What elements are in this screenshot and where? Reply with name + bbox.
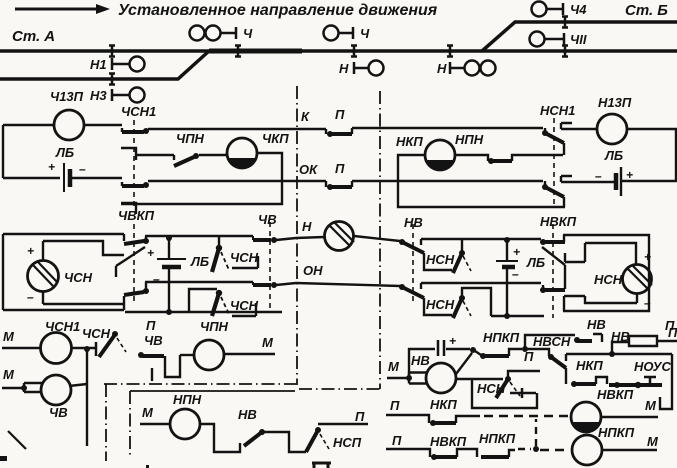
- svg-text:+: +: [644, 250, 651, 264]
- svg-text:ЧСН: ЧСН: [82, 326, 111, 341]
- svg-text:НВ: НВ: [411, 353, 430, 368]
- svg-text:НСН1: НСН1: [540, 103, 575, 118]
- svg-text:П: П: [392, 433, 402, 448]
- svg-text:+: +: [27, 244, 34, 258]
- svg-text:М: М: [388, 359, 400, 374]
- svg-text:НОУС: НОУС: [634, 359, 671, 374]
- svg-text:ЧСН: ЧСН: [230, 250, 259, 265]
- svg-text:+: +: [513, 245, 520, 259]
- svg-text:П: П: [335, 107, 345, 122]
- svg-text:Ч4: Ч4: [570, 2, 587, 17]
- svg-text:Ч: Ч: [360, 26, 370, 41]
- svg-text:М: М: [142, 405, 154, 420]
- svg-text:Ч13П: Ч13П: [50, 89, 84, 104]
- svg-text:Н: Н: [339, 61, 349, 76]
- svg-text:–: –: [512, 267, 519, 281]
- svg-text:ЛБ: ЛБ: [604, 148, 623, 163]
- svg-text:Ст. А: Ст. А: [12, 28, 55, 45]
- svg-text:ЛБ: ЛБ: [55, 145, 74, 160]
- svg-text:ЧСН1: ЧСН1: [45, 319, 80, 334]
- svg-text:М: М: [647, 434, 659, 449]
- svg-text:НКП: НКП: [396, 134, 423, 149]
- svg-text:+: +: [626, 168, 633, 182]
- svg-text:Н: Н: [302, 219, 312, 234]
- svg-text:+: +: [147, 246, 154, 260]
- svg-text:НВ: НВ: [238, 407, 257, 422]
- svg-text:–: –: [644, 296, 651, 310]
- svg-text:НСН: НСН: [426, 297, 455, 312]
- svg-text:НПКП: НПКП: [483, 330, 520, 345]
- svg-text:ЛБ: ЛБ: [190, 254, 209, 269]
- svg-text:ЧВ: ЧВ: [258, 212, 277, 227]
- svg-text:М: М: [3, 329, 15, 344]
- svg-text:НВ: НВ: [611, 329, 630, 344]
- svg-text:НПН: НПН: [455, 132, 484, 147]
- svg-text:НКП: НКП: [576, 358, 603, 373]
- svg-text:Ч: Ч: [243, 26, 253, 41]
- svg-text:НПКП: НПКП: [479, 431, 516, 446]
- svg-text:Н: Н: [437, 61, 447, 76]
- svg-text:П: П: [524, 349, 534, 364]
- svg-text:Н13П: Н13П: [598, 95, 632, 110]
- svg-text:П: П: [668, 325, 677, 340]
- svg-text:НСН: НСН: [426, 252, 455, 267]
- svg-text:ЧВКП: ЧВКП: [118, 208, 155, 223]
- svg-text:П: П: [355, 409, 365, 424]
- svg-text:НВКП: НВКП: [597, 387, 634, 402]
- svg-text:М: М: [3, 367, 15, 382]
- svg-text:М: М: [262, 335, 274, 350]
- svg-text:+: +: [48, 160, 55, 174]
- svg-text:НВСН: НВСН: [533, 334, 571, 349]
- svg-text:П: П: [335, 161, 345, 176]
- svg-text:НПКП: НПКП: [598, 425, 635, 440]
- svg-text:ЧКП: ЧКП: [262, 131, 289, 146]
- svg-text:+: +: [449, 334, 456, 348]
- svg-text:П: П: [146, 318, 156, 333]
- svg-text:К: К: [301, 109, 310, 124]
- svg-text:–: –: [595, 169, 602, 183]
- svg-text:НКП: НКП: [430, 397, 457, 412]
- svg-text:НСН: НСН: [594, 272, 623, 287]
- svg-text:ЧСН: ЧСН: [230, 298, 259, 313]
- svg-text:Установленное направление движ: Установленное направление движения: [118, 2, 438, 19]
- svg-text:М: М: [645, 398, 657, 413]
- svg-text:НСП: НСП: [333, 435, 362, 450]
- svg-text:НВКП: НВКП: [540, 214, 577, 229]
- svg-text:ЛБ: ЛБ: [526, 255, 545, 270]
- svg-text:Н1: Н1: [90, 57, 107, 72]
- svg-text:–: –: [153, 272, 160, 286]
- svg-text:Ст. Б: Ст. Б: [625, 2, 668, 19]
- svg-text:ОК: ОК: [299, 162, 318, 177]
- svg-text:НВ: НВ: [587, 317, 606, 332]
- svg-text:ЧВ: ЧВ: [49, 405, 68, 420]
- svg-text:ЧСН: ЧСН: [64, 270, 93, 285]
- svg-text:ОН: ОН: [303, 263, 323, 278]
- svg-text:НСН: НСН: [477, 381, 506, 396]
- svg-text:НВКП: НВКП: [430, 434, 467, 449]
- svg-text:–: –: [27, 290, 34, 304]
- svg-text:ЧПН: ЧПН: [200, 319, 229, 334]
- svg-text:ЧСН1: ЧСН1: [121, 104, 156, 119]
- svg-text:П: П: [390, 398, 400, 413]
- svg-text:НПН: НПН: [173, 392, 202, 407]
- svg-text:ЧВ: ЧВ: [144, 333, 163, 348]
- svg-text:ЧПН: ЧПН: [176, 131, 205, 146]
- svg-text:НВ: НВ: [404, 215, 423, 230]
- svg-text:ЧII: ЧII: [570, 32, 587, 47]
- svg-text:–: –: [79, 162, 86, 176]
- svg-text:Н3: Н3: [90, 88, 107, 103]
